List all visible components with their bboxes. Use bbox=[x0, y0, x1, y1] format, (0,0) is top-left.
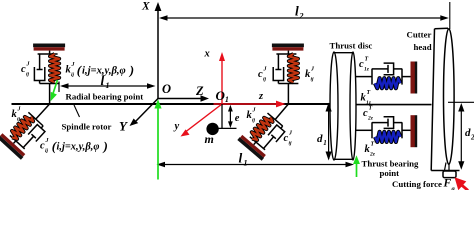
spring-damper assembly J1 upper bbox=[33, 44, 65, 105]
svg-text:F: F bbox=[443, 178, 452, 190]
thrust wall T1 bbox=[411, 62, 416, 94]
dimension e bbox=[229, 107, 231, 126]
mass m bbox=[206, 123, 218, 135]
svg-text:ij: ij bbox=[71, 72, 75, 78]
axis Z bbox=[158, 98, 202, 100]
label k_ij^J (i,j=x,y,beta,phi) (J1 upper spring) bbox=[66, 62, 135, 78]
svg-text:i,j=x,y,β,φ: i,j=x,y,β,φ bbox=[57, 142, 100, 153]
svg-text:ij: ij bbox=[311, 77, 315, 83]
dimension d1 bbox=[328, 105, 330, 159]
label c_ij^J (J2 upper damper) bbox=[258, 67, 268, 83]
label c_ij^J (J2 lower damper) bbox=[284, 131, 294, 147]
svg-text:J: J bbox=[263, 67, 268, 73]
svg-text:O: O bbox=[162, 82, 171, 96]
dimension d2 bbox=[448, 101, 474, 103]
label c_2z^T bbox=[363, 106, 374, 122]
svg-text:l: l bbox=[239, 151, 243, 166]
spring-damper assembly J2 upper bbox=[272, 44, 304, 105]
svg-text:ij: ij bbox=[252, 118, 256, 124]
svg-text:): ) bbox=[103, 139, 108, 154]
svg-text:2: 2 bbox=[299, 12, 304, 21]
svg-text:J: J bbox=[288, 131, 293, 137]
cutter head body bbox=[431, 28, 459, 170]
svg-text:Y: Y bbox=[119, 119, 128, 134]
svg-text:d: d bbox=[317, 133, 323, 145]
spring-damper assembly J1 lower (diagonal) bbox=[0, 93, 62, 160]
svg-text:x: x bbox=[204, 49, 210, 60]
svg-text:2z: 2z bbox=[367, 116, 374, 122]
svg-text:y: y bbox=[173, 121, 180, 132]
dimension l1 (bottom) bbox=[159, 164, 352, 166]
svg-text:J: J bbox=[45, 138, 50, 144]
wire O1 center line down bbox=[221, 104, 223, 128]
svg-text:ij: ij bbox=[289, 141, 293, 147]
svg-text:Z: Z bbox=[195, 84, 204, 98]
svg-text:X: X bbox=[141, 1, 150, 13]
thrust wall T2 bbox=[411, 115, 416, 147]
dimension l1 (left) bbox=[58, 82, 60, 93]
label c_ij^J (J1 upper damper) bbox=[21, 62, 31, 78]
svg-text:ij: ij bbox=[17, 117, 21, 123]
svg-text:Cutter: Cutter bbox=[407, 30, 432, 40]
svg-text:O1: O1 bbox=[216, 88, 229, 104]
svg-text:Radial bearing point: Radial bearing point bbox=[66, 92, 144, 102]
svg-text:Cutting force: Cutting force bbox=[392, 179, 442, 189]
label c_ij^J (i,j=x,y,beta,phi) (J1 lower damper) bbox=[40, 138, 108, 154]
label k_1z^T bbox=[361, 90, 372, 106]
svg-text:z: z bbox=[258, 91, 264, 102]
axis y (red) bbox=[186, 104, 222, 132]
svg-text:1: 1 bbox=[106, 81, 110, 90]
label k_ij^J (J1 lower spring) bbox=[12, 107, 22, 123]
svg-text:1z: 1z bbox=[364, 67, 370, 73]
label k_ij^J (J2 lower spring) bbox=[247, 108, 257, 124]
svg-text:l: l bbox=[295, 4, 299, 19]
axis X bbox=[157, 8, 159, 99]
node marker O on shaft (green line+arrow) bbox=[157, 104, 159, 180]
svg-text:J: J bbox=[310, 67, 315, 73]
svg-text:2: 2 bbox=[470, 134, 474, 142]
svg-text:J: J bbox=[26, 62, 31, 68]
svg-text:J: J bbox=[252, 108, 257, 114]
svg-text:): ) bbox=[129, 63, 134, 78]
label spindle rotor + pointer bbox=[74, 105, 80, 117]
svg-text:T: T bbox=[367, 90, 371, 96]
svg-text:a: a bbox=[452, 186, 456, 191]
svg-text:e: e bbox=[235, 113, 240, 124]
svg-text:Spindle rotor: Spindle rotor bbox=[62, 122, 112, 132]
axis Y bbox=[136, 99, 158, 122]
svg-text:T: T bbox=[369, 106, 373, 112]
svg-text:ij: ij bbox=[263, 77, 267, 83]
axis x (red) bbox=[221, 58, 223, 104]
node marker thrust bearing point (green arrow) bbox=[356, 161, 358, 177]
axis z (red) bbox=[214, 103, 279, 105]
svg-text:l: l bbox=[101, 73, 105, 88]
svg-text:T: T bbox=[365, 57, 369, 63]
label k_ij^J (J2 upper spring) bbox=[305, 67, 315, 83]
wire shaft right segment bbox=[354, 104, 432, 106]
label c_1z^T bbox=[359, 57, 370, 73]
svg-text:m: m bbox=[205, 132, 214, 146]
thrust assembly T1 (upper) bbox=[356, 62, 417, 94]
svg-text:1: 1 bbox=[244, 159, 248, 168]
dimension l2 bbox=[161, 17, 447, 19]
svg-text:J: J bbox=[17, 107, 22, 113]
svg-text:1: 1 bbox=[323, 139, 327, 147]
svg-text:ij: ij bbox=[45, 148, 49, 154]
svg-text:2z: 2z bbox=[369, 152, 376, 158]
svg-text:point: point bbox=[380, 168, 400, 178]
spring-damper assembly J2 lower (diagonal) bbox=[237, 93, 301, 160]
thrust disc body bbox=[332, 53, 353, 159]
svg-text:J: J bbox=[71, 62, 76, 68]
thrust assembly T2 (lower) bbox=[356, 115, 417, 147]
eccentricity tick bbox=[219, 127, 237, 129]
svg-text:Thrust disc: Thrust disc bbox=[330, 41, 373, 51]
svg-text:head: head bbox=[414, 42, 432, 52]
wire shaft left segment bbox=[12, 103, 337, 105]
node marker radial bearing point (green arrow) bbox=[53, 80, 58, 95]
svg-text:T: T bbox=[371, 142, 375, 148]
cutter tool insert bbox=[443, 171, 456, 178]
svg-text:Thrust bearing: Thrust bearing bbox=[362, 159, 420, 169]
label k_2z^T bbox=[365, 142, 376, 158]
svg-text:ij: ij bbox=[26, 72, 30, 78]
